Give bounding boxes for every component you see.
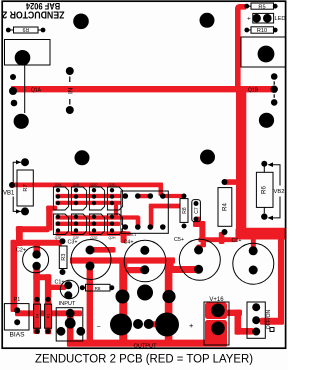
svg-text:Q2F: Q2F — [73, 236, 80, 240]
svg-text:Q2D: Q2D — [109, 183, 117, 187]
svg-text:VB2: VB2 — [274, 189, 285, 195]
svg-text:C1+: C1+ — [54, 279, 64, 285]
svg-text:R10: R10 — [257, 28, 267, 34]
svg-text:Q2H: Q2H — [109, 236, 117, 240]
svg-text:Q1A: Q1A — [31, 88, 42, 94]
svg-text:P1: P1 — [14, 297, 21, 303]
svg-text:BIAS: BIAS — [9, 332, 25, 339]
svg-text:R9: R9 — [22, 26, 29, 32]
svg-text:+: + — [189, 321, 193, 330]
svg-text:OUTPUT: OUTPUT — [134, 344, 158, 350]
svg-text:C4+: C4+ — [123, 240, 133, 246]
svg-text:C6+: C6+ — [231, 238, 241, 244]
svg-text:RL1: RL1 — [130, 233, 136, 237]
svg-text:V+16: V+16 — [209, 297, 224, 303]
svg-text:Q2E: Q2E — [55, 236, 63, 240]
svg-text:Q1B: Q1B — [248, 88, 259, 94]
svg-text:Q2C: Q2C — [91, 183, 99, 187]
svg-text:C3+: C3+ — [67, 239, 77, 245]
svg-text:OFF/ON: OFF/ON — [266, 309, 272, 329]
svg-text:C7: C7 — [194, 207, 200, 214]
svg-text:R8: R8 — [95, 286, 101, 291]
svg-text:Q2G: Q2G — [90, 236, 98, 240]
svg-text:BAF 9024: BAF 9024 — [26, 1, 60, 12]
svg-text:+: + — [247, 15, 251, 22]
svg-text:IN: IN — [67, 87, 74, 94]
svg-text:R5: R5 — [258, 4, 265, 10]
svg-text:Q2B: Q2B — [73, 183, 81, 187]
svg-text:LED: LED — [275, 16, 286, 22]
svg-text:R6: R6 — [261, 185, 268, 193]
svg-text:R1: R1 — [47, 314, 51, 318]
svg-text:ZENDUCTOR 2 PCB (RED = TOP LAY: ZENDUCTOR 2 PCB (RED = TOP LAYER) — [35, 352, 253, 366]
svg-text:−: − — [97, 324, 101, 331]
svg-text:C2+: C2+ — [16, 247, 26, 253]
svg-text:C4: C4 — [36, 314, 40, 318]
svg-text:Q2A: Q2A — [55, 183, 63, 187]
svg-text:INPUT: INPUT — [59, 301, 76, 307]
svg-text:C5+: C5+ — [174, 237, 184, 243]
svg-text:R8: R8 — [182, 207, 188, 214]
svg-text:VB1: VB1 — [3, 191, 15, 197]
svg-text:R7: R7 — [23, 184, 29, 191]
svg-text:R3: R3 — [61, 254, 67, 261]
svg-text:R4: R4 — [222, 202, 229, 210]
